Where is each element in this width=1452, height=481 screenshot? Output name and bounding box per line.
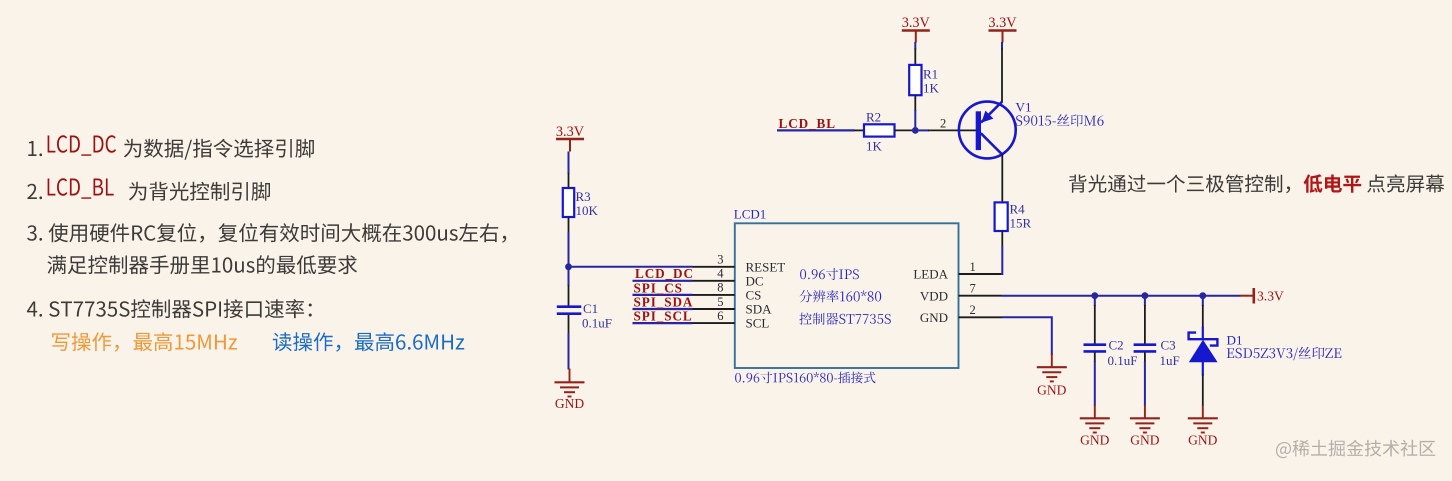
svg-text:8: 8: [717, 281, 723, 295]
power 3.3V (VDD rail, right): [1240, 288, 1284, 304]
wire C2 to GND: [1094, 361, 1096, 406]
svg-text:SDA: SDA: [746, 302, 773, 317]
pin 6 SCL: [693, 309, 770, 331]
resistor R3: [563, 173, 574, 233]
svg-text:GND: GND: [555, 396, 584, 411]
note 3 line 1: RC reset description: [27, 223, 506, 243]
node B junction: [912, 127, 919, 134]
svg-text:10K: 10K: [576, 203, 599, 218]
power 3.3V (R3 pull-up): [556, 124, 585, 152]
wire 3.3V rail to C2: [1094, 296, 1096, 344]
svg-text:SPI_CS: SPI_CS: [634, 280, 683, 295]
svg-text:7: 7: [970, 282, 976, 296]
resistor R1: [909, 49, 921, 112]
net label SPI_SCL: [633, 309, 693, 324]
label C1 0.1uF: [582, 301, 612, 331]
svg-text:R3: R3: [576, 189, 591, 204]
svg-text:LCD_BL: LCD_BL: [779, 116, 836, 131]
svg-text:SPI_SCL: SPI_SCL: [634, 309, 693, 324]
svg-text:C1: C1: [583, 301, 598, 316]
ground GND (LCD1 pin 2): [1037, 354, 1067, 398]
wire R4 to LCD1 LEDA: [1001, 246, 1004, 274]
watermark juejin community: [1276, 440, 1435, 458]
svg-text:V1: V1: [1016, 100, 1032, 115]
svg-text:GND: GND: [1037, 383, 1066, 398]
wire R1 to node B: [914, 110, 916, 131]
pin 4 DC: [693, 267, 764, 289]
wire LCD1 GND pin to ground: [1002, 317, 1052, 355]
label C2 0.1uF: [1108, 338, 1138, 369]
label V1 S9015-丝印M6: [1016, 100, 1104, 127]
note 2: LCD_BL pin description: [27, 178, 270, 201]
svg-text:R4: R4: [1010, 202, 1026, 217]
label R2 1K: [866, 110, 883, 154]
pin 3 RESET: [693, 253, 786, 275]
capacitor C1: [557, 307, 582, 334]
svg-text:RESET: RESET: [746, 259, 786, 274]
net label SPI_SDA: [633, 294, 694, 309]
node D junction (C3 tap): [1142, 292, 1149, 299]
power 3.3V (V1 emitter): [988, 15, 1017, 43]
svg-text:LCD1: LCD1: [734, 207, 767, 222]
svg-text:GND: GND: [1188, 433, 1217, 448]
svg-text:6: 6: [717, 309, 723, 323]
node C junction (C2 tap): [1091, 292, 1098, 299]
svg-text:1: 1: [970, 260, 976, 274]
net label LCD_BL: [777, 116, 855, 131]
wire 3.3V to V1 emitter: [1001, 42, 1003, 102]
svg-text:3.3V: 3.3V: [1257, 289, 1284, 304]
wire node B to V1 base: [915, 129, 976, 131]
svg-text:LEDA: LEDA: [913, 267, 948, 282]
svg-text:DC: DC: [746, 273, 764, 288]
wire node A to LCD1 RESET: [569, 266, 693, 268]
pin 2 GND: [920, 303, 1002, 325]
ground GND (C1): [555, 369, 585, 412]
svg-text:CS: CS: [746, 288, 762, 303]
svg-text:1K: 1K: [923, 81, 940, 96]
svg-text:D1: D1: [1227, 333, 1243, 348]
note 4: SPI speed: [27, 299, 312, 318]
svg-text:GND: GND: [920, 310, 948, 325]
svg-text:5: 5: [717, 295, 723, 309]
note 4 line 2: write/read speed: [52, 332, 237, 352]
ground GND (C2): [1080, 405, 1110, 448]
resistor R4: [995, 202, 1008, 246]
svg-text:LCD_DC: LCD_DC: [635, 266, 694, 281]
ground GND (D1): [1188, 405, 1218, 448]
wire node A to C1: [568, 267, 570, 306]
node A junction: [565, 263, 572, 270]
wire 3.3V rail to D1: [1202, 296, 1204, 328]
node E junction (D1 tap): [1199, 292, 1206, 299]
capacitor C3: [1134, 345, 1157, 362]
pin 7 VDD: [920, 282, 1002, 304]
wire C3 to GND: [1144, 361, 1146, 406]
note: backlight control description: [1069, 174, 1444, 193]
pin 8 CS: [693, 281, 762, 303]
pin 1 LEDA: [913, 260, 1001, 282]
svg-text:C3: C3: [1161, 338, 1176, 353]
svg-text:2: 2: [940, 117, 946, 131]
svg-text:R1: R1: [923, 67, 938, 82]
wire 3.3V to R3: [568, 152, 570, 175]
svg-text:GND: GND: [1080, 433, 1109, 448]
pin 5 SDA: [693, 295, 773, 317]
wire 3.3V to R1: [914, 42, 916, 50]
svg-text:3: 3: [717, 253, 723, 267]
svg-text:GND: GND: [1130, 433, 1159, 448]
wire 3.3V rail to C3: [1144, 296, 1146, 344]
diode D1 (ESD zener): [1189, 327, 1218, 407]
svg-text:0.1uF: 0.1uF: [1108, 353, 1138, 368]
label R4 15R: [1010, 202, 1032, 231]
svg-text:1uF: 1uF: [1160, 353, 1180, 368]
net label LCD_DC: [633, 266, 694, 281]
wire VDD to 3.3V rail: [1002, 295, 1241, 297]
svg-text:SPI_SDA: SPI_SDA: [634, 294, 694, 309]
label C3 1uF: [1160, 338, 1180, 369]
ground GND (C3): [1130, 405, 1160, 448]
svg-text:1K: 1K: [866, 139, 883, 154]
wire R3 to node A: [568, 232, 570, 267]
wire V1 collector to R4: [1001, 154, 1003, 203]
label 0.96寸IPS / 分辨率160*80 / 控制器ST7735S: [799, 268, 890, 325]
resistor R2: [854, 124, 913, 136]
power 3.3V (R1 pull-up): [902, 15, 931, 43]
svg-text:3.3V: 3.3V: [988, 15, 1017, 31]
svg-text:R2: R2: [866, 110, 881, 125]
IC LCD1 (ST7735S LCD module): [735, 223, 959, 368]
svg-text:SCL: SCL: [746, 316, 770, 331]
net label SPI_CS: [633, 280, 693, 295]
wire C1 to GND: [568, 333, 570, 370]
svg-text:2: 2: [970, 303, 976, 317]
label R3 10K: [576, 189, 599, 218]
note 3 line 2: [47, 255, 357, 274]
svg-text:0.1uF: 0.1uF: [582, 316, 612, 331]
svg-text:4: 4: [717, 267, 724, 281]
label 0.96寸IPS160*80-插接式: [735, 372, 875, 384]
label D1 ESD5Z3V3/丝印ZE: [1227, 333, 1342, 361]
svg-text:C2: C2: [1109, 338, 1124, 353]
svg-text:VDD: VDD: [920, 288, 948, 303]
svg-text:3.3V: 3.3V: [902, 15, 931, 31]
transistor V1 (PNP S9015): [959, 102, 1016, 159]
svg-text:3.3V: 3.3V: [556, 124, 585, 140]
capacitor C2: [1084, 345, 1107, 362]
label R1 1K: [923, 67, 940, 96]
note 1: LCD_DC pin description: [28, 135, 314, 160]
svg-text:15R: 15R: [1010, 216, 1032, 231]
